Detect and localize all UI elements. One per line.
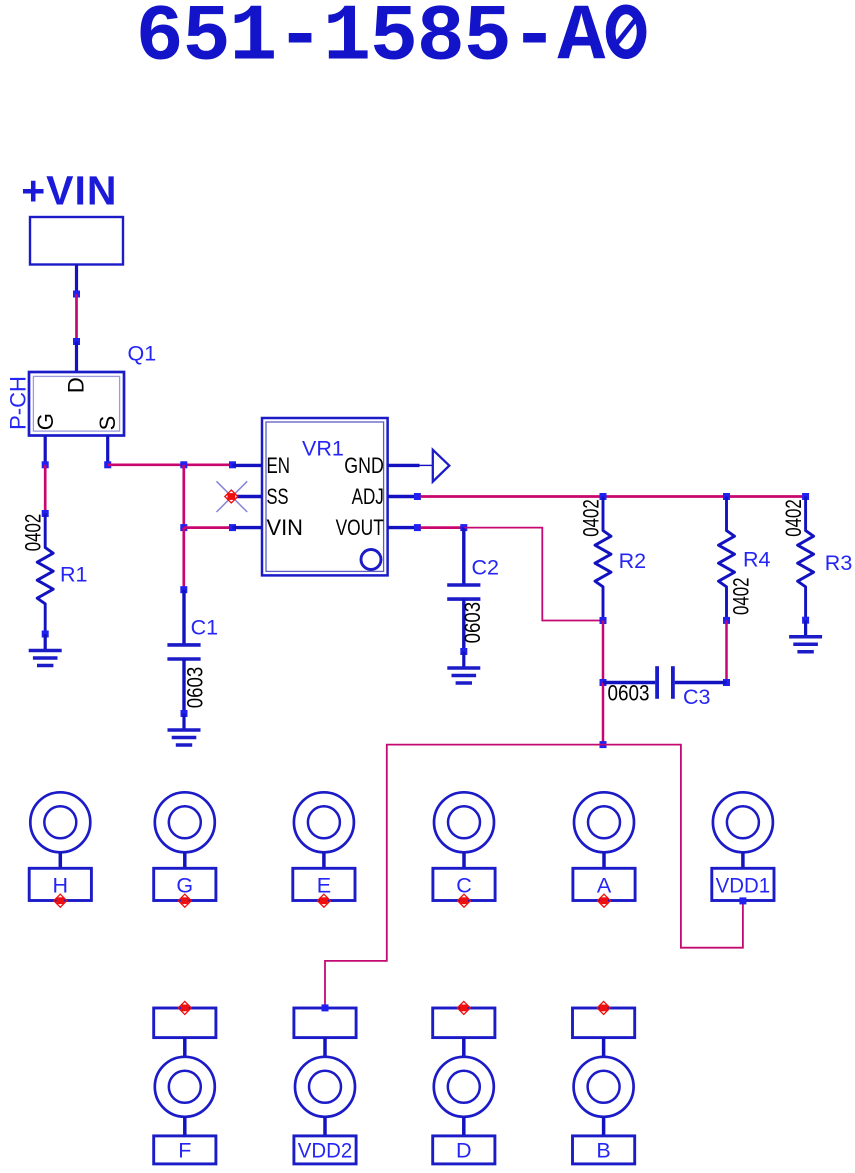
svg-text:0603: 0603 [460,602,485,644]
junction ADJ [414,493,421,500]
capacitor C3 lead right [675,681,727,684]
op-amp/regulator U VR1 box [262,418,388,575]
svg-text:Q1: Q1 [128,342,157,366]
no-connect cross on SS [217,481,248,512]
wire C3.left down to bottom tree (magenta) [602,683,605,745]
connector H [29,792,91,907]
capacitor C2 lead top [462,528,465,585]
junction C1.bot [181,710,188,717]
connector F [154,1001,216,1164]
wire +VIN net (magenta) [75,294,78,342]
wire tree to VDD1 (thin magenta) [603,745,743,948]
junction C3.right [723,679,730,686]
junction VOUT [414,524,421,531]
wire R2.bot down to C3 (magenta) [602,621,605,683]
connector B [573,1001,635,1164]
ground (below C2) [447,652,480,684]
junction C3.left [600,679,607,686]
svg-text:0603: 0603 [182,667,207,709]
capacitor C2 body [447,585,480,599]
port box +VIN [30,217,123,265]
svg-text:R1: R1 [60,563,87,587]
wire VIN pin stub [233,526,263,529]
wire SS pin stub [237,495,263,498]
svg-text:C1: C1 [191,616,218,640]
svg-text:0402: 0402 [21,514,46,552]
ground (below R3) [789,620,822,652]
svg-text:0402: 0402 [728,577,753,615]
resistor R4 [719,497,735,621]
svg-text:C3: C3 [683,685,711,709]
transistor Q1 (P-CH MOSFET block) [29,372,124,436]
capacitor C1 lead top [182,590,185,645]
svg-text:D: D [64,377,89,393]
GND output triangle symbol [433,450,450,482]
junction +VIN/a [73,291,80,298]
junction +VIN/b [73,338,80,345]
svg-text:G: G [33,413,58,430]
capacitor C3 lead left [603,681,655,684]
capacitor C1 lead bottom [182,659,185,714]
wire GND thin lead [420,464,433,466]
wire Q1.D pin stub [75,342,78,373]
wire G to R1 (magenta) [44,465,47,514]
node VDD2 pin [322,1004,329,1011]
capacitor C1 body [167,645,200,659]
junction S [104,461,111,468]
svg-text:B: B [596,1139,610,1163]
svg-text:VR1: VR1 [302,437,344,461]
wire T2 down to C1 (magenta) [182,528,185,590]
junction R3.top [802,493,809,500]
svg-text:ADJ: ADJ [352,484,384,509]
capacitor C3 body [657,666,673,699]
wire C2 to R2.bot (thin magenta) [464,528,603,621]
svg-text:R2: R2 [619,549,646,573]
wire T1 down (magenta) [182,465,185,528]
wire ADJ pin stub [388,495,415,498]
junction R4.bot [723,617,730,624]
svg-text:F: F [178,1139,191,1163]
svg-text:0402: 0402 [781,499,806,537]
svg-text:D: D [456,1139,472,1163]
svg-text:VOUT: VOUT [336,515,384,540]
wire T2 to VIN (magenta) [184,526,233,529]
connector A [573,792,635,907]
junction VIN [229,524,236,531]
wire VOUT to C2 (magenta) [421,526,464,529]
junction EN [229,461,236,468]
resistor R3 [798,497,814,621]
svg-text:C2: C2 [472,555,499,579]
wire S to EN (magenta) [108,463,233,466]
connector D [433,1001,495,1164]
svg-text:S: S [95,416,120,431]
resistor R2 [595,497,611,621]
ground (below R1) [29,634,62,666]
wire ADJ rail (magenta) [421,495,806,498]
title 651-1585-A0 [136,0,642,84]
svg-text:+VIN: +VIN [21,168,117,214]
svg-text:651-1585-A: 651-1585-A [136,0,607,84]
connector C [433,792,495,907]
svg-text:EN: EN [267,453,291,478]
connector VDD2 [294,1008,356,1164]
junction R4.top [723,493,730,500]
svg-text:R4: R4 [743,548,771,572]
node VDD1 pin [739,897,746,904]
wire VOUT pin stub [388,526,415,529]
svg-text:0402: 0402 [579,499,604,537]
svg-text:GND: GND [344,453,384,478]
connector G [154,792,216,907]
svg-text:VDD1: VDD1 [716,874,771,898]
wire EN pin stub [233,464,263,467]
junction R2.top [600,493,607,500]
svg-text:SS: SS [267,484,289,509]
SS red pin marker [225,490,238,503]
ground (below C1) [168,714,201,746]
wire R4.bot down to C3 (magenta) [725,620,728,682]
svg-text:R3: R3 [825,551,853,575]
connector VDD1 [712,792,774,900]
svg-text:P-CH: P-CH [6,376,31,430]
junction C2.top [460,524,467,531]
svg-text:0603: 0603 [608,680,650,705]
junction R2.bot [600,617,607,624]
junction R1.bot [42,631,49,638]
junction R1.top [42,510,49,517]
svg-text:VDD2: VDD2 [298,1139,353,1163]
junction C2.bot [460,648,467,655]
junction T1 [180,461,187,468]
junction C1.top [180,586,187,593]
wire Q1.G pin stub [44,436,47,465]
resistor R1 [37,514,53,635]
junction tree [600,741,607,748]
junction T2 [180,524,187,531]
junction G [42,461,49,468]
wire +VIN to Q1.D (blue stub) [75,265,78,294]
connector E [293,792,355,907]
capacitor C2 lead bottom [462,599,465,651]
wire GND pin stub [388,464,420,467]
svg-text:VIN: VIN [267,515,304,540]
wire tree to VDD2 (thin magenta) [325,745,603,1008]
wire Q1.S pin stub [106,436,109,465]
junction R3.bot [802,617,809,624]
